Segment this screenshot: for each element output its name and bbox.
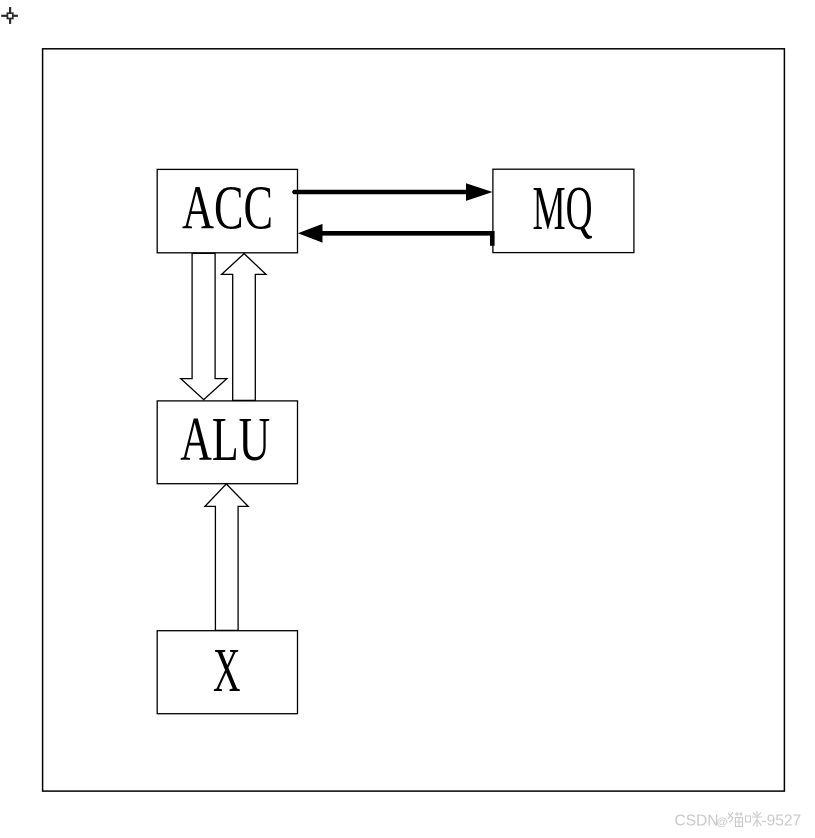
register ALU [157,401,297,484]
svg-text:-9527: -9527 [762,813,802,830]
watermark glyph mao [728,812,743,827]
crosshair cursor [1,7,18,24]
register MQ [493,169,634,252]
register ACC [157,169,297,252]
svg-text:MQ: MQ [533,175,593,243]
hollow arrow ACC to ALU (down) [181,253,227,399]
watermark glyph mi [746,812,763,828]
hollow arrow X to ALU (up) [205,484,248,631]
svg-text:ACC: ACC [182,175,273,243]
svg-text:CSDN: CSDN [675,813,719,830]
svg-text:ALU: ALU [180,406,270,474]
register X [157,631,297,714]
svg-text:X: X [213,637,241,705]
svg-text:@: @ [717,817,728,829]
watermark CSDN [675,813,728,830]
arrow MQ to ACC (solid, with elbow at MQ) [298,224,492,246]
hollow arrow ALU to ACC (up) [222,254,266,401]
arrow ACC to MQ (solid) [295,183,493,201]
